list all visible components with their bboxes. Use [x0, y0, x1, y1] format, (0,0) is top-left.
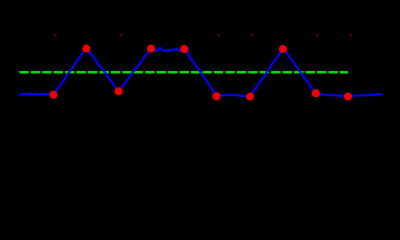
sample dot 1 (red marker) [49, 91, 57, 99]
faint dot above trough 3 [218, 34, 220, 36]
sample dot 4 (red marker) [147, 44, 155, 52]
sample dot 10 (red marker) [344, 92, 352, 100]
noisy signal (blue polyline) [20, 48, 381, 97]
sample dot 8 (red marker) [279, 45, 287, 53]
sample dot 5 (red marker) [180, 45, 188, 53]
sample dot 7 (red marker) [246, 92, 254, 100]
faint dot above trough 4 [251, 34, 253, 36]
threshold line (green dashed) [19, 71, 348, 74]
faint dot above trough 1 [54, 34, 56, 36]
sample dot 6 (red marker) [212, 92, 220, 100]
faint dot above trough 6 [350, 34, 352, 36]
sample dot 9 (red marker) [312, 89, 320, 97]
faint dot above trough 2 [120, 34, 122, 36]
sample dot 3 (red marker) [115, 87, 123, 95]
faint dot above trough 5 [316, 34, 318, 36]
sample dot 2 (red marker) [82, 45, 90, 53]
